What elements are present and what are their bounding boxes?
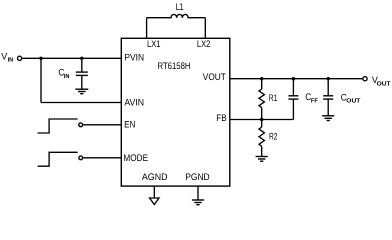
label CFF	[305, 92, 318, 104]
svg-text:LX2: LX2	[197, 39, 211, 50]
wire EN	[83, 124, 122, 126]
svg-text:AGND: AGND	[142, 172, 168, 183]
wire AGND pin	[153, 186, 155, 198]
svg-text:R2: R2	[269, 131, 278, 142]
terminal MODE	[79, 156, 83, 160]
node junction CIN tap	[80, 57, 83, 60]
node VIN label	[1, 51, 13, 63]
wire to AVIN pin	[41, 102, 121, 104]
wire down to AVIN row	[40, 58, 42, 102]
terminal VIN	[18, 56, 22, 60]
svg-text:R1: R1	[269, 93, 278, 104]
svg-text:PGND: PGND	[185, 172, 210, 183]
wire VIN to PVIN	[22, 57, 122, 59]
svg-text:IN: IN	[8, 57, 14, 64]
resistor R1	[259, 79, 264, 120]
wire MODE	[83, 157, 122, 159]
ground CIN (earth)	[75, 89, 88, 94]
svg-text:OUT: OUT	[377, 80, 391, 87]
node junction R1 top	[260, 77, 263, 80]
svg-text:L1: L1	[176, 2, 184, 13]
svg-text:PVIN: PVIN	[124, 52, 144, 63]
svg-text:MODE: MODE	[123, 153, 148, 164]
ground PGND (earth)	[192, 200, 204, 205]
svg-text:LX1: LX1	[147, 39, 161, 50]
capacitor CIN	[76, 58, 88, 89]
svg-text:VOUT: VOUT	[203, 72, 226, 83]
label CIN	[58, 67, 69, 80]
wire LX2 riser	[204, 18, 206, 39]
node junction CFF top	[292, 77, 295, 80]
capacitor CFF	[288, 79, 298, 120]
svg-text:RT6158H: RT6158H	[158, 61, 191, 72]
terminal EN	[79, 123, 83, 127]
ground COUT (earth)	[322, 116, 334, 121]
ground AGND (signal triangle)	[150, 198, 159, 205]
node junction VIN/AVIN	[39, 57, 42, 60]
pulse symbol MODE input	[38, 152, 78, 166]
wire LX1 riser	[146, 18, 148, 39]
resistor R2	[259, 120, 264, 157]
node VOUT label	[372, 75, 391, 87]
node junction FB/R2	[260, 118, 263, 121]
node junction COUT top	[327, 77, 330, 80]
wire FB line	[230, 119, 294, 121]
capacitor COUT	[323, 79, 333, 116]
terminal VOUT	[363, 77, 367, 81]
svg-text:EN: EN	[124, 119, 135, 130]
pulse symbol EN input	[38, 119, 78, 133]
svg-text:IN: IN	[64, 73, 70, 80]
ground R2 (earth)	[256, 157, 268, 162]
IC U1 RT6158H body	[121, 38, 230, 186]
svg-text:AVIN: AVIN	[124, 97, 144, 108]
inductor L1	[147, 14, 206, 17]
label COUT	[341, 92, 361, 104]
svg-text:FB: FB	[216, 113, 226, 124]
svg-text:OUT: OUT	[346, 97, 360, 104]
wire VOUT rail	[230, 78, 363, 80]
wire PGND pin	[197, 186, 199, 200]
svg-text:FF: FF	[311, 97, 318, 104]
